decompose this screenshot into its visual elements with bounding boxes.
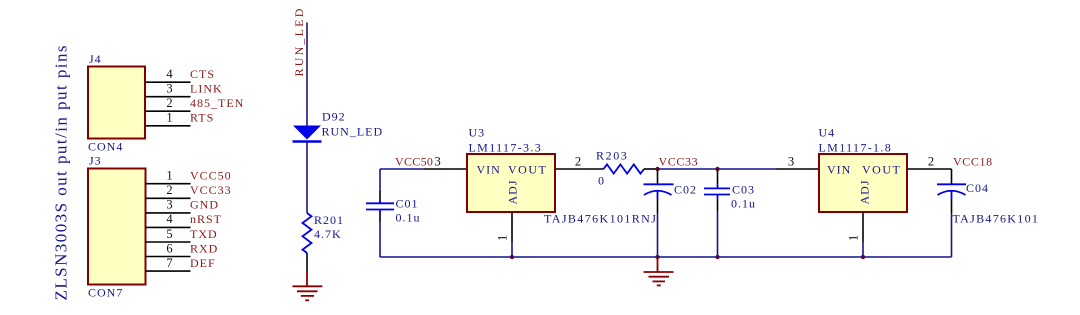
svg-text:0: 0 [598, 174, 605, 188]
svg-text:VCC33: VCC33 [190, 183, 232, 197]
svg-text:TXD: TXD [190, 227, 218, 241]
svg-text:7: 7 [166, 256, 172, 270]
svg-text:RTS: RTS [190, 111, 214, 125]
svg-text:2: 2 [928, 154, 934, 168]
svg-text:VCC33: VCC33 [659, 155, 699, 169]
svg-text:CON7: CON7 [88, 286, 123, 300]
svg-text:U3: U3 [469, 126, 486, 140]
svg-text:ADJ: ADJ [858, 179, 872, 204]
svg-text:DEF: DEF [190, 256, 216, 270]
svg-text:CTS: CTS [190, 67, 215, 81]
svg-text:CON4: CON4 [88, 140, 123, 154]
svg-text:1: 1 [847, 235, 861, 241]
svg-text:0.1u: 0.1u [731, 197, 756, 211]
svg-text:RXD: RXD [190, 241, 218, 255]
svg-text:VCC50: VCC50 [395, 154, 433, 168]
svg-text:C04: C04 [966, 181, 989, 195]
svg-text:2: 2 [166, 96, 172, 110]
svg-text:LM1117-3.3: LM1117-3.3 [469, 140, 543, 154]
svg-text:VOUT: VOUT [862, 163, 901, 177]
svg-text:3: 3 [166, 82, 172, 96]
svg-text:RUN_LED: RUN_LED [322, 125, 384, 139]
svg-text:1: 1 [496, 235, 510, 241]
svg-text:6: 6 [166, 241, 172, 255]
svg-text:VIN: VIN [477, 163, 501, 177]
svg-text:TAJB476K101: TAJB476K101 [953, 212, 1040, 226]
svg-text:LM1117-1.8: LM1117-1.8 [819, 140, 893, 154]
svg-text:RUN_LED: RUN_LED [292, 6, 306, 76]
svg-text:4: 4 [166, 67, 173, 81]
svg-text:J3: J3 [89, 154, 102, 168]
svg-text:4.7K: 4.7K [314, 227, 342, 241]
svg-text:U4: U4 [819, 126, 836, 140]
svg-text:VCC50: VCC50 [190, 169, 232, 183]
svg-text:J4: J4 [89, 52, 102, 66]
svg-text:R203: R203 [596, 149, 628, 163]
svg-text:2: 2 [575, 154, 581, 168]
svg-text:ZLSN3003S out put/in put pins: ZLSN3003S out put/in put pins [52, 44, 71, 300]
svg-text:1: 1 [166, 169, 172, 183]
svg-text:1: 1 [166, 111, 172, 125]
svg-text:485_TEN: 485_TEN [190, 96, 244, 110]
svg-text:VOUT: VOUT [508, 163, 547, 177]
svg-text:5: 5 [166, 227, 172, 241]
svg-text:C03: C03 [732, 183, 755, 197]
svg-text:2: 2 [166, 183, 172, 197]
svg-text:TAJB476K101RNJ: TAJB476K101RNJ [544, 212, 657, 226]
svg-text:4: 4 [166, 212, 173, 226]
svg-text:ADJ: ADJ [506, 179, 520, 204]
svg-text:0.1u: 0.1u [396, 211, 421, 225]
svg-text:LINK: LINK [190, 82, 223, 96]
svg-text:C01: C01 [396, 197, 419, 211]
svg-text:C02: C02 [674, 183, 697, 197]
svg-text:VCC18: VCC18 [953, 154, 993, 168]
svg-text:nRST: nRST [190, 212, 222, 226]
svg-text:VIN: VIN [827, 163, 851, 177]
svg-text:R201: R201 [314, 213, 344, 227]
svg-text:3: 3 [435, 155, 441, 169]
svg-text:3: 3 [788, 154, 794, 168]
svg-text:3: 3 [166, 198, 172, 212]
svg-text:D92: D92 [322, 110, 346, 124]
svg-text:GND: GND [190, 198, 219, 212]
